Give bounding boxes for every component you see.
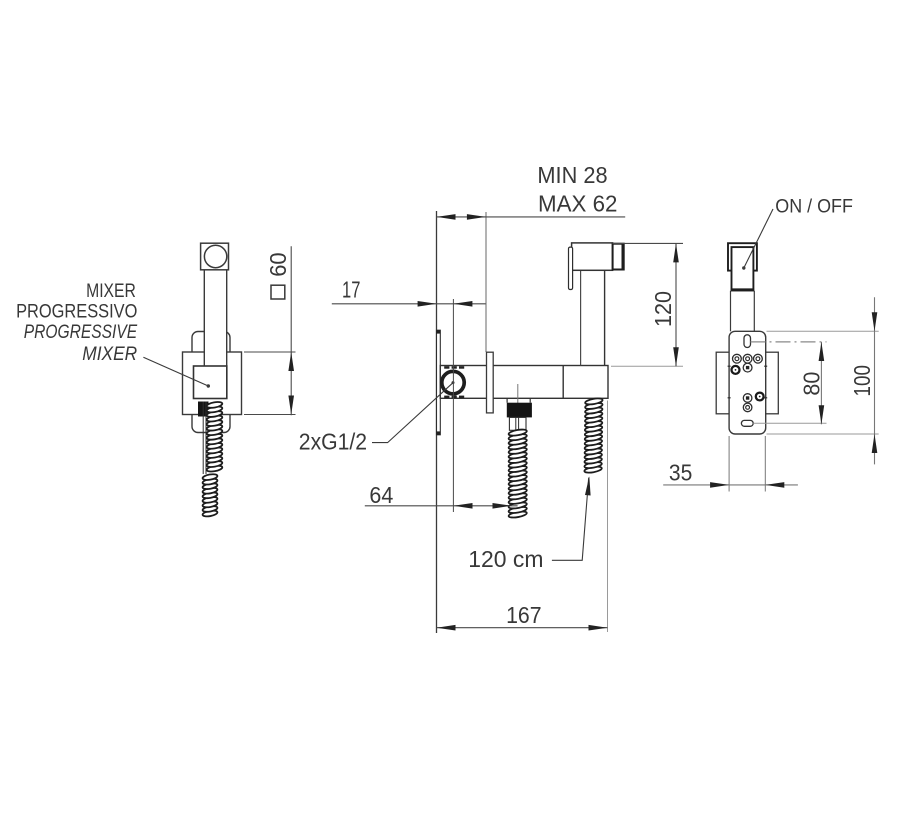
- recessed thin wall plate (middle view): [436, 330, 440, 435]
- thread hatch marks at inlet: [444, 366, 464, 398]
- svg-text:PROGRESSIVO: PROGRESSIVO: [16, 302, 137, 323]
- dimension 100 (right view): line with outside arrows: [872, 297, 878, 464]
- sprayer end cap (middle view): [613, 243, 624, 270]
- dimension 35 (right view): line with outside arrows: [663, 482, 798, 488]
- wall holder bracket (left view): [192, 332, 230, 433]
- screw hole with square socket (lower): [743, 394, 752, 403]
- cover plate face line (middle view): [485, 212, 487, 352]
- sprayer head body (middle view): [572, 243, 613, 270]
- label 64: [369, 482, 393, 508]
- dimension 17: extension line: [452, 299, 454, 512]
- screw hole with square socket (upper): [743, 363, 752, 372]
- svg-text:MIXER: MIXER: [82, 344, 137, 365]
- hose 1 tube section: [509, 417, 526, 430]
- tick marks on plate edges: [728, 366, 768, 398]
- label 167: [506, 602, 541, 628]
- leader 2xG1/2 to inlet circle: [372, 383, 453, 443]
- bottom slot extension line (right view): [753, 422, 826, 424]
- leader line from mixer label to block: [143, 357, 210, 387]
- hose 1 axis line: [517, 384, 519, 404]
- label 2xG1/2: [299, 428, 367, 454]
- label 120 cm: [468, 546, 543, 572]
- dimension square-60: extension lines: [244, 352, 296, 415]
- svg-text:100: 100: [849, 365, 875, 396]
- label 35: [669, 460, 692, 486]
- dimension 17: dimension line with outside arrows: [332, 301, 486, 307]
- inner hose tube lines (left view): [203, 402, 206, 475]
- dimension square-60: dimension line with arrows: [288, 246, 294, 415]
- svg-text:2xG1/2: 2xG1/2: [299, 428, 367, 454]
- leader ON/OFF: [742, 209, 773, 270]
- hand shower handle (left view): [204, 268, 226, 367]
- label ON / OFF: [775, 196, 853, 218]
- flexible hose upper section (left view): [206, 401, 222, 473]
- svg-text:64: 64: [369, 482, 393, 508]
- svg-text:ON / OFF: ON / OFF: [775, 196, 853, 218]
- flexible hose lower section (left view): [202, 473, 218, 517]
- dimension 35 (right view): extension lines: [729, 436, 765, 492]
- extension line from body right edge down to 167 dim: [607, 401, 609, 633]
- sprayer nozzle face bar: [569, 247, 573, 289]
- dimension 167: [437, 625, 608, 631]
- hose 1 nut (black): [507, 403, 532, 418]
- dimension 64: [365, 503, 518, 509]
- mounting plate (right view): [729, 331, 766, 434]
- svg-text:120: 120: [650, 291, 676, 327]
- dimension MIN 28 / MAX 62: [437, 214, 626, 220]
- hand shower head (left view): [201, 243, 229, 270]
- spray nozzle circle: [204, 245, 226, 267]
- leader 120 cm with arrow to hose 2: [552, 476, 591, 560]
- bold screw (lower right): [756, 393, 764, 401]
- label MIXER PROGRESSIVO / PROGRESSIVE MIXER: [16, 281, 137, 365]
- top slot on plate: [744, 335, 751, 348]
- valve body (middle view): [440, 366, 608, 399]
- svg-text:80: 80: [799, 372, 825, 396]
- hose nut (left view, black): [198, 402, 209, 417]
- pipe below knob (right view): [731, 291, 755, 332]
- ON/OFF knob outer (right view): [728, 243, 757, 270]
- svg-text:60: 60: [265, 252, 291, 276]
- wall line (middle view): [436, 211, 438, 633]
- bold screw (upper left): [732, 366, 740, 374]
- hose 1 coils (middle view): [508, 428, 527, 518]
- dimension 120 (middle): dimension line: [673, 243, 679, 366]
- dimension 80 (right view): [819, 342, 825, 424]
- svg-text:MAX 62: MAX 62: [538, 191, 617, 217]
- bottom slot on plate: [741, 420, 753, 426]
- dimension square-60: label: [265, 252, 291, 299]
- svg-text:MIN 28: MIN 28: [537, 162, 607, 188]
- built-in body behind plate (right view): [716, 352, 778, 414]
- ON/OFF knob inner (right view): [731, 247, 754, 290]
- dimension 120 (middle): extension lines: [611, 243, 683, 366]
- inlet circle 2xG1/2 (middle view): [442, 371, 464, 393]
- hose 1 collar (middle view): [507, 398, 530, 402]
- progressive mixer block (left view): [194, 366, 227, 399]
- svg-text:17: 17: [342, 276, 360, 302]
- label 80 (rotated): [799, 372, 825, 396]
- cover plate edge-on (middle view): [487, 352, 494, 413]
- svg-text:PROGRESSIVE: PROGRESSIVE: [24, 322, 138, 343]
- lower plain screw hole: [743, 403, 752, 412]
- svg-text:120 cm: 120 cm: [468, 546, 543, 572]
- screw holes row 1: [733, 354, 763, 363]
- label 17: [342, 276, 360, 302]
- svg-text:MIXER: MIXER: [86, 281, 136, 302]
- hose 2 coils (middle view): [584, 397, 603, 473]
- shower pipe (middle view): [581, 270, 605, 365]
- label 120 (rotated): [650, 291, 676, 327]
- label MIN 28 / MAX 62: [537, 162, 617, 217]
- square wall plate 60x60 (left view): [183, 352, 242, 415]
- svg-text:35: 35: [669, 460, 692, 486]
- svg-text:167: 167: [506, 602, 541, 628]
- dimension 100 (right view): extension lines: [767, 331, 879, 434]
- label 100 (rotated): [849, 365, 875, 396]
- center dash-dot line (right view): [751, 341, 827, 343]
